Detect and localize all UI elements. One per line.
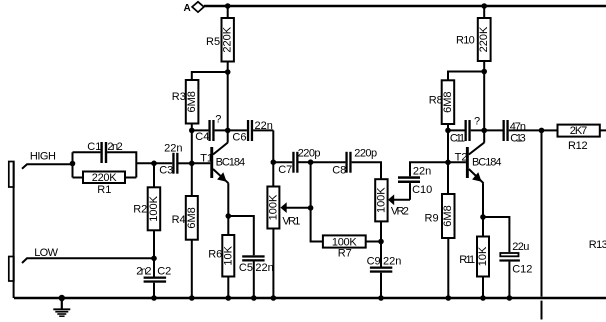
node C7/C8 junction [308, 159, 314, 165]
wire R8 junction down to T2 base [447, 130, 449, 162]
svg-text:C6: C6 [232, 132, 246, 144]
node junction below R5 [225, 69, 231, 75]
node junction C3 / R2 [151, 161, 157, 167]
node T1 base junction [189, 161, 195, 167]
svg-text:VR1: VR1 [282, 216, 300, 228]
ground [53, 295, 70, 316]
svg-text:6M8: 6M8 [442, 205, 454, 226]
capacitor C5 22n [228, 216, 273, 298]
capacitor C12 22u [483, 217, 532, 298]
node T1 emitter junction [226, 213, 232, 219]
svg-text:100K: 100K [267, 194, 279, 220]
wire C7/C8 node down to R7 [311, 162, 323, 241]
svg-text:R9: R9 [425, 212, 439, 224]
resistor R9 6M8 [425, 162, 455, 298]
svg-text:100K: 100K [148, 195, 160, 221]
node C2 / rail [151, 295, 157, 301]
node R9 / rail [446, 295, 452, 301]
svg-text:A: A [184, 3, 191, 14]
svg-text:R13: R13 [589, 239, 606, 251]
transistor T1 BC184 [192, 143, 245, 184]
svg-text:C1: C1 [87, 141, 101, 153]
input jack HIGH [9, 151, 73, 188]
svg-text:2n2: 2n2 [107, 141, 122, 153]
svg-text:220K: 220K [478, 26, 490, 52]
capacitor C3 22n [154, 143, 192, 177]
resistor R7 100K [323, 235, 381, 259]
svg-text:R3: R3 [172, 91, 186, 103]
svg-text:R8: R8 [429, 95, 443, 107]
svg-text:22n: 22n [255, 120, 273, 132]
svg-text:LOW: LOW [34, 247, 58, 259]
node C9 / rail [378, 295, 384, 301]
resistor R12 2K7 [542, 125, 606, 153]
svg-text:?: ? [215, 114, 221, 126]
node junction R8 / C11 [445, 128, 451, 134]
node junction top rail / R5 [225, 3, 231, 9]
svg-text:R2: R2 [133, 204, 147, 216]
svg-text:R12: R12 [568, 140, 588, 152]
capacitor C11 ? [448, 115, 484, 144]
resistor R2 100K [133, 163, 160, 258]
wire collector rail R5 down to T1 [227, 72, 229, 143]
wire T2 emitter down [482, 183, 484, 217]
wire collector rail R10 down to T2 [483, 72, 485, 143]
svg-text:10K: 10K [222, 245, 234, 265]
wire top supply rail [204, 5, 606, 7]
node VR1 / rail [271, 295, 277, 301]
svg-text:R7: R7 [338, 248, 352, 260]
svg-text:R6: R6 [208, 249, 222, 261]
node VR1 wiper junction [308, 205, 314, 211]
svg-text:6M8: 6M8 [186, 91, 198, 112]
svg-text:C9: C9 [367, 255, 381, 267]
capacitor C7 220p [273, 147, 320, 175]
svg-text:2n2: 2n2 [136, 265, 151, 277]
svg-text:T2: T2 [455, 151, 468, 163]
svg-text:100K: 100K [375, 187, 387, 213]
wire T1 emitter down [227, 183, 229, 216]
svg-text:C7: C7 [278, 164, 292, 176]
node LOW / R2 / C2 junction [151, 255, 157, 261]
svg-text:BC184: BC184 [216, 157, 246, 169]
svg-text:220K: 220K [222, 26, 234, 52]
node junction below R10 [481, 69, 487, 75]
svg-text:22n: 22n [164, 143, 182, 155]
resistor R11 10K [459, 217, 489, 298]
svg-text:47n: 47n [510, 121, 526, 133]
node R4 / rail [189, 295, 195, 301]
svg-text:C2: C2 [157, 265, 171, 277]
node junction top rail / R10 [481, 3, 487, 9]
capacitor C4 ? [192, 114, 228, 144]
svg-text:?: ? [474, 115, 480, 127]
resistor R8 6M8 [429, 72, 485, 131]
wire combo output [136, 162, 154, 164]
svg-text:R5: R5 [206, 36, 220, 48]
transistor T2 BC184 [448, 143, 502, 184]
svg-text:100K: 100K [332, 236, 357, 248]
svg-text:C3: C3 [159, 165, 173, 177]
wire left input ground return [13, 162, 15, 299]
svg-text:C11: C11 [450, 133, 465, 145]
svg-text:R10: R10 [456, 35, 475, 47]
svg-text:C5: C5 [239, 262, 253, 274]
capacitor C13 47n [484, 120, 541, 144]
input jack LOW [9, 247, 154, 281]
svg-text:6M8: 6M8 [442, 91, 454, 112]
svg-text:T1: T1 [200, 153, 213, 165]
wire C6 down to C7/VR1 node [272, 130, 274, 162]
svg-text:C4: C4 [195, 131, 209, 143]
svg-text:220p: 220p [354, 147, 377, 159]
node T2 emitter junction [480, 214, 486, 220]
svg-text:C10: C10 [412, 184, 432, 196]
svg-text:HIGH: HIGH [30, 151, 56, 163]
resistor R10 220K [456, 6, 491, 72]
svg-text:6M8: 6M8 [186, 207, 198, 228]
node T1 collector junction [225, 128, 231, 134]
wire R5 junction to R3 [192, 72, 228, 80]
capacitor C8 220p [311, 147, 381, 179]
resistor R4 6M8 [172, 163, 198, 298]
svg-text:220p: 220p [298, 147, 321, 159]
capacitor C10 22n [398, 162, 448, 200]
capacitor C6 22n [228, 120, 274, 144]
svg-text:22n: 22n [413, 166, 431, 178]
node C12 / rail [507, 295, 513, 301]
potentiometer VR2 100K [375, 179, 410, 241]
node junction R3 / C4 / base branch [189, 128, 195, 134]
svg-text:R1: R1 [97, 184, 111, 196]
svg-text:10K: 10K [477, 246, 489, 266]
node A [184, 2, 204, 14]
node R7/VR2/C9 junction [378, 239, 384, 245]
node C5 / rail [251, 295, 257, 301]
resistor R6 10K [208, 216, 234, 298]
wire bottom ground rail [14, 297, 606, 299]
capacitor C1 2n2 [73, 141, 137, 178]
wire R3 junction down to T1 base node [191, 130, 193, 163]
node T2 collector junction [481, 128, 487, 134]
node HIGH input junction [70, 161, 76, 167]
svg-text:R11: R11 [459, 254, 475, 266]
resistor R5 220K [206, 6, 234, 72]
potentiometer VR1 100K [267, 162, 310, 298]
node T2 base junction [445, 160, 451, 166]
wire output node down (crossing bottom rail) [541, 130, 543, 319]
svg-text:C8: C8 [332, 164, 346, 176]
resistor R1 220K [73, 172, 137, 197]
svg-text:22u: 22u [512, 241, 529, 253]
svg-text:BC184: BC184 [472, 156, 502, 168]
node R6 / rail [226, 295, 232, 301]
svg-text:C12: C12 [512, 263, 532, 275]
node C13 output junction [539, 128, 545, 134]
svg-text:22n: 22n [255, 262, 273, 274]
svg-text:22n: 22n [383, 255, 401, 267]
node R11 / rail [480, 295, 486, 301]
svg-text:VR2: VR2 [391, 206, 409, 218]
svg-text:220K: 220K [92, 172, 117, 184]
svg-text:2K7: 2K7 [570, 125, 588, 137]
capacitor C9 22n [367, 242, 402, 299]
svg-text:C13: C13 [510, 132, 525, 144]
capacitor C2 2n2 [136, 258, 171, 298]
resistor R3 6M8 [172, 80, 199, 130]
svg-text:R4: R4 [172, 214, 186, 226]
node C6/C7/VR1 junction [271, 159, 277, 165]
